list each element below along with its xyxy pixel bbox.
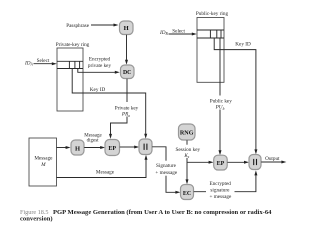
wire: IDB select arrow (169, 33, 194, 35)
wire: key ID (public) to concat 2 (214, 38, 256, 151)
svg-text:M: M (40, 162, 46, 168)
encrypt box EC (181, 185, 194, 200)
label Private key PRa (113, 102, 140, 117)
wire: message to H2 (57, 147, 68, 149)
wire: DC to EP1 (private key PRa) (111, 79, 128, 136)
svg-text:Select: Select (172, 28, 185, 34)
label Encrypted signature + message (206, 180, 235, 200)
wire: Passphrase to H (91, 24, 114, 26)
wire: EP1 to concat1 (120, 146, 136, 148)
svg-text:private key: private key (88, 63, 112, 69)
hash box H (message) (71, 140, 84, 155)
svg-text:Key ID: Key ID (235, 42, 251, 48)
svg-text:Encrypted: Encrypted (210, 181, 232, 187)
public-key ring table row (197, 29, 224, 31)
svg-text:EC: EC (183, 191, 191, 197)
encrypt box EP2 (214, 155, 228, 170)
svg-text:Public-key ring: Public-key ring (196, 11, 229, 17)
svg-text:H: H (75, 145, 80, 152)
svg-text:RNG: RNG (180, 130, 194, 136)
svg-text:H: H (124, 25, 129, 32)
svg-text:Select: Select (37, 58, 50, 64)
svg-text:Signature: Signature (156, 163, 177, 169)
svg-text:EP: EP (108, 146, 116, 152)
svg-text:digest: digest (87, 139, 100, 144)
svg-text:Passphrase: Passphrase (66, 23, 89, 29)
svg-text:+ message: + message (155, 170, 177, 176)
wire: EC to concat2 (encrypted signature + message) (194, 174, 256, 192)
concat box 2 (249, 155, 261, 170)
svg-text:Encrypted: Encrypted (89, 56, 111, 62)
label Public key PUb (207, 96, 234, 110)
box Message M (29, 138, 57, 186)
wire: RNG session key to EC and EP2 (186, 140, 188, 181)
svg-text:Key ID: Key ID (90, 87, 106, 93)
svg-text:+ message: + message (210, 194, 232, 200)
svg-text:Message: Message (96, 170, 115, 176)
private-key ring table row (57, 60, 83, 62)
wire: key ID (private) to concat 1 (72, 69, 146, 136)
svg-text:conversion): conversion) (20, 216, 53, 223)
concat box 1 (139, 139, 152, 155)
wire: IDA select arrow (34, 63, 54, 65)
svg-text:Public key: Public key (210, 99, 232, 105)
svg-text:Private-key ring: Private-key ring (56, 42, 90, 48)
box private-key ring (57, 48, 83, 111)
wire: output arrow (261, 161, 283, 163)
wire: concat1 to EC (signature + message) (152, 147, 177, 193)
svg-text:signature: signature (210, 188, 230, 194)
wire: H2 to EP1 (84, 147, 101, 149)
wire: EP2 to concat2 (227, 161, 245, 163)
svg-text:DC: DC (123, 70, 131, 76)
svg-text:Figure 18.5PGP Message Generat: Figure 18.5PGP Message Generation (from … (20, 209, 272, 216)
svg-text:EP: EP (217, 161, 225, 167)
encrypt box EP1 (105, 140, 120, 156)
svg-text:Message: Message (34, 156, 53, 162)
wire: message bottom line to concat1 (57, 158, 147, 177)
wire: encrypted private key to DC (78, 69, 116, 73)
box public-key ring (197, 18, 224, 83)
svg-text:Session key: Session key (175, 147, 200, 153)
hash box H (passphrase) (120, 21, 134, 35)
svg-text:Output: Output (265, 156, 280, 162)
wire: H to DC (126, 35, 128, 61)
decrypt box DC (121, 65, 135, 79)
label Signature + message (154, 161, 180, 176)
label Session key Ks (176, 145, 200, 158)
wire: public key PUb to EP2 (219, 38, 221, 152)
random number generator RNG (179, 124, 196, 140)
